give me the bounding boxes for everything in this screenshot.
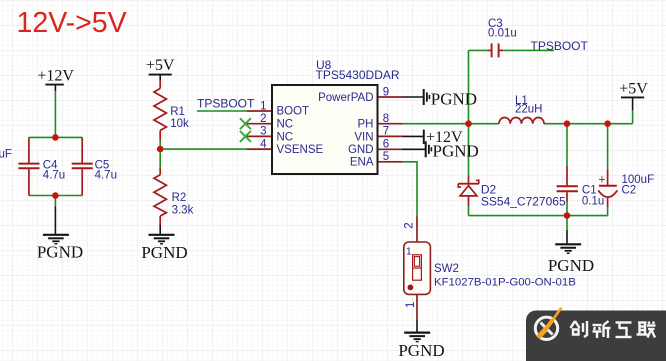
svg-text:7: 7: [383, 126, 389, 138]
svg-text:R1: R1: [170, 106, 185, 118]
svg-text:4.7u: 4.7u: [95, 170, 117, 182]
svg-text:PGND: PGND: [141, 243, 187, 262]
svg-text:TPS5430DDAR: TPS5430DDAR: [316, 68, 400, 82]
svg-text:ENA: ENA: [350, 157, 374, 169]
svg-text:VIN: VIN: [354, 131, 373, 143]
svg-text:PGND: PGND: [433, 142, 479, 161]
svg-text:NC: NC: [277, 131, 294, 143]
svg-text:6: 6: [383, 139, 389, 151]
svg-text:TPSBOOT: TPSBOOT: [197, 96, 255, 110]
svg-text:22uH: 22uH: [515, 104, 543, 116]
svg-text:R2: R2: [172, 192, 187, 204]
svg-text:4: 4: [260, 138, 267, 150]
svg-text:+5V: +5V: [146, 57, 175, 74]
svg-text:KF1027B-01P-G00-ON-01B: KF1027B-01P-G00-ON-01B: [434, 276, 576, 288]
svg-text:NC: NC: [277, 119, 294, 131]
svg-text:8: 8: [383, 113, 389, 125]
svg-text:PGND: PGND: [37, 243, 83, 262]
svg-text:12V->5V: 12V->5V: [17, 7, 127, 39]
svg-text:0.01u: 0.01u: [488, 28, 517, 40]
svg-text:3.3k: 3.3k: [172, 205, 194, 217]
svg-text:9: 9: [383, 86, 389, 98]
svg-text:PowerPAD: PowerPAD: [318, 92, 373, 104]
svg-text:uF: uF: [0, 148, 12, 160]
svg-text:5: 5: [383, 151, 389, 163]
svg-text:3: 3: [260, 126, 266, 138]
svg-text:+5V: +5V: [619, 80, 648, 97]
svg-text:GND: GND: [348, 144, 374, 156]
svg-text:4.7u: 4.7u: [43, 170, 65, 182]
svg-text:VSENSE: VSENSE: [277, 144, 324, 156]
svg-text:PGND: PGND: [431, 90, 477, 109]
svg-text:PH: PH: [358, 119, 374, 131]
svg-text:SW2: SW2: [434, 263, 459, 275]
svg-text:C2: C2: [622, 185, 637, 197]
svg-text:0.1u: 0.1u: [582, 195, 604, 207]
svg-text:BOOT: BOOT: [277, 106, 310, 118]
svg-text:1: 1: [405, 302, 417, 308]
svg-text:1: 1: [260, 100, 266, 112]
svg-text:10k: 10k: [170, 118, 189, 130]
svg-text:PGND: PGND: [548, 256, 594, 275]
svg-text:100uF: 100uF: [622, 174, 655, 186]
svg-text:+12V: +12V: [37, 68, 74, 85]
svg-text:2: 2: [404, 222, 416, 228]
svg-text:SS54_C727065: SS54_C727065: [481, 194, 566, 208]
svg-text:TPSBOOT: TPSBOOT: [531, 39, 589, 53]
svg-text:2: 2: [260, 113, 266, 125]
svg-text:1: 1: [406, 245, 412, 257]
svg-text:PGND: PGND: [398, 341, 444, 360]
svg-text:+: +: [598, 172, 605, 186]
